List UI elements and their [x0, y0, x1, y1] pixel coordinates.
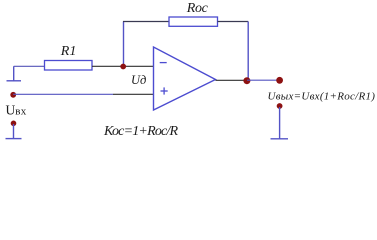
- svg-text:Uвх: Uвх: [6, 103, 27, 118]
- ground (bottom-right, under output): [271, 107, 289, 139]
- resistor R1: [45, 61, 93, 71]
- wire: input terminal to op-amp plus input (blue part): [13, 93, 113, 95]
- svg-text:Кос=1+Roc/R: Кос=1+Roc/R: [103, 124, 179, 139]
- wire: Roc to feedback top right corner: [218, 21, 249, 23]
- wire: R1 right to op-amp inverting input: [92, 65, 154, 67]
- wire: op-amp output to feedback junction: [216, 79, 248, 81]
- wire: feedback junction to output terminal: [247, 79, 280, 81]
- svg-text:R1: R1: [60, 44, 77, 59]
- node: input source lower terminal: [11, 121, 17, 127]
- wire: ground corner to R1 left: [14, 65, 45, 67]
- ground (bottom-left, under Uvx): [6, 124, 22, 139]
- ground (top-left, at R1 left side): [7, 66, 22, 81]
- svg-text:Uвых=Uвх(1+Roc/R1): Uвых=Uвх(1+Roc/R1): [268, 90, 376, 102]
- wire: input wire dark part to op-amp: [113, 93, 154, 95]
- resistor Roc: [169, 17, 218, 26]
- op-amp U1 triangle: [154, 47, 216, 110]
- svg-text:Uд: Uд: [131, 73, 146, 87]
- op-amp plus sign: [161, 87, 168, 94]
- wire: feedback vertical right down to output node: [247, 22, 249, 81]
- node: output feedback junction: [243, 77, 250, 84]
- op-amp minus sign: [160, 62, 167, 64]
- node: output lower terminal: [277, 103, 283, 109]
- wire: feedback top left horizontal to Roc: [123, 21, 169, 23]
- svg-text:Roc: Roc: [186, 1, 209, 16]
- node Uvx: input terminal: [10, 92, 16, 98]
- node: output terminal: [276, 77, 283, 84]
- node: inverting input junction: [120, 64, 126, 70]
- wire: feedback vertical left: [123, 22, 125, 67]
